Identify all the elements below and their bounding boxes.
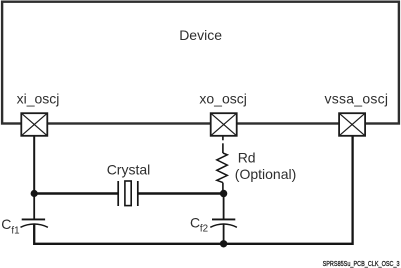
svg-text:f1: f1 [11,226,19,237]
node junction xo top [220,190,227,197]
svg-text:C: C [1,216,11,232]
resistor Rd [217,153,228,183]
svg-text:(Optional): (Optional) [235,166,296,182]
capacitor C_f1 [21,219,48,227]
svg-text:SPRS85Su_PCB_CLK_OSC_3: SPRS85Su_PCB_CLK_OSC_3 [323,259,400,268]
node junction xi [31,190,38,197]
wire Cf1 upper lead [33,194,35,220]
pin xo_oscj (X-box) [211,113,237,136]
wire xo lead upper (broken) [222,135,224,140]
node junction xo bottom [220,240,227,247]
device U1 (Device block) [2,2,399,124]
svg-text:f2: f2 [200,223,208,234]
pin xi_oscj (X-box) [21,113,47,136]
wire Cf2 upper lead [223,194,225,220]
wire xi-junction to crystal left [34,192,118,194]
wire Rd lower lead [222,183,224,194]
svg-text:C: C [190,215,200,231]
capacitor C_f2 [210,219,237,243]
wire xi vertical [33,135,35,194]
wire vssa vertical + bottom wire + Cf1 riser (net VSSA) [34,135,352,244]
svg-text:Rd: Rd [238,149,256,165]
wire crystal right to xo-junction [138,192,224,194]
crystal Y1 [118,181,138,206]
svg-text:xi_oscj: xi_oscj [17,90,60,106]
svg-text:vssa_oscj: vssa_oscj [325,90,389,106]
pin vssa_oscj (X-box) [339,113,365,136]
svg-text:Crystal: Crystal [107,161,151,177]
svg-text:xo_oscj: xo_oscj [199,90,246,106]
svg-text:Device: Device [179,27,222,43]
